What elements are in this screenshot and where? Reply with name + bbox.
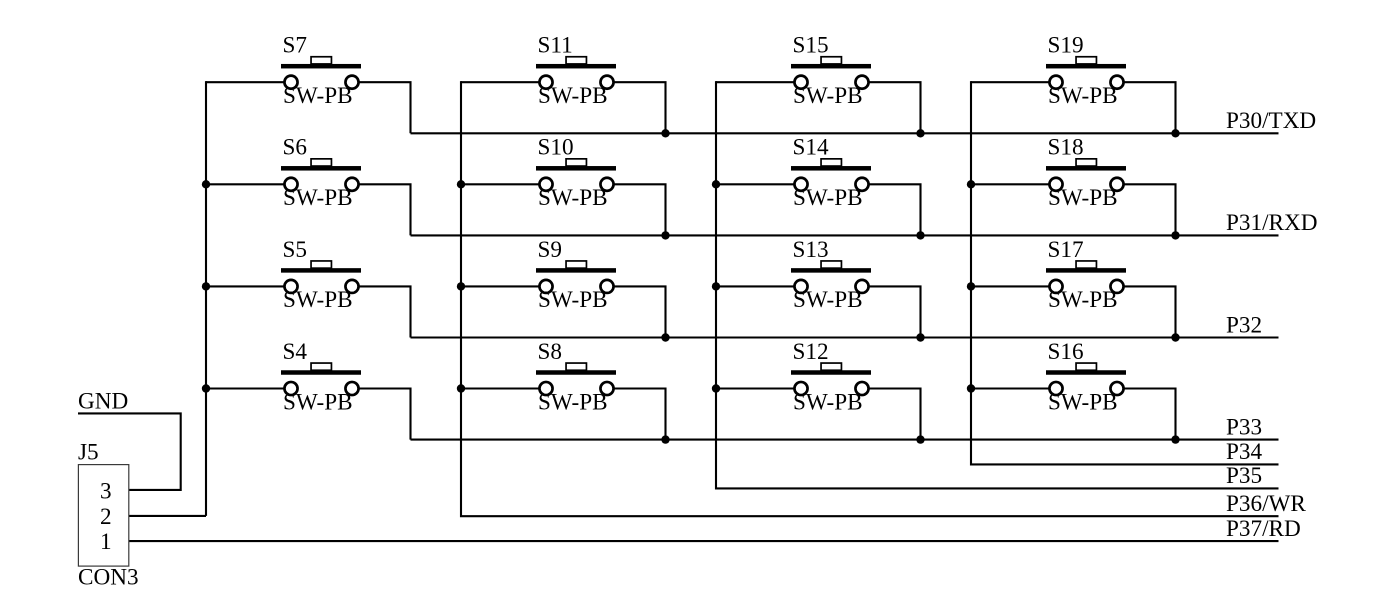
wire: row 3 right lead and drop at column 4 bbox=[1124, 286, 1175, 337]
svg-text:SW-PB: SW-PB bbox=[793, 287, 863, 313]
junction bbox=[661, 435, 669, 443]
junction bbox=[661, 231, 669, 239]
svg-text:3: 3 bbox=[100, 478, 112, 504]
pushbutton switch S8 bbox=[536, 363, 616, 395]
wire: row 3 left lead at column 2 bbox=[461, 285, 539, 287]
svg-text:P32: P32 bbox=[1226, 312, 1262, 338]
svg-text:SW-PB: SW-PB bbox=[793, 389, 863, 415]
pushbutton switch S7 bbox=[281, 57, 361, 89]
wire: row 1 right lead and drop at column 1 bbox=[359, 82, 410, 133]
wire: row 2 left lead at column 3 bbox=[716, 183, 794, 185]
pushbutton switch S18 bbox=[1046, 159, 1126, 191]
wire: P33 row output line bbox=[411, 439, 1279, 441]
svg-text:J5: J5 bbox=[78, 440, 99, 466]
junction bbox=[967, 282, 975, 290]
wire: J5 pin 1 to P37/RD bbox=[129, 540, 1279, 542]
svg-text:SW-PB: SW-PB bbox=[1048, 83, 1118, 109]
wire: row 4 right lead and drop at column 3 bbox=[869, 389, 920, 440]
svg-text:SW-PB: SW-PB bbox=[283, 389, 353, 415]
svg-text:S19: S19 bbox=[1048, 33, 1084, 59]
wire: row 3 right lead and drop at column 2 bbox=[614, 286, 665, 337]
junction bbox=[202, 282, 210, 290]
svg-text:P34: P34 bbox=[1226, 439, 1262, 465]
svg-text:S6: S6 bbox=[283, 135, 308, 161]
wire: row 1 left lead at column 1 bbox=[206, 81, 284, 83]
junction bbox=[1171, 129, 1179, 137]
junction bbox=[712, 384, 720, 392]
wire: row 4 left lead at column 3 bbox=[716, 387, 794, 389]
wire: P30/TXD row output line bbox=[411, 132, 1279, 134]
junction bbox=[661, 333, 669, 341]
junction bbox=[916, 231, 924, 239]
junction bbox=[457, 180, 465, 188]
wire: row 4 left lead at column 1 bbox=[206, 387, 284, 389]
wire: row 2 left lead at column 1 bbox=[206, 183, 284, 185]
wire: row 3 right lead and drop at column 3 bbox=[869, 286, 920, 337]
junction bbox=[916, 129, 924, 137]
wire: row 2 right lead and drop at column 1 bbox=[359, 184, 410, 235]
wire: row 4 right lead and drop at column 2 bbox=[614, 389, 665, 440]
wire: row 4 left lead at column 2 bbox=[461, 387, 539, 389]
wire: row 2 left lead at column 2 bbox=[461, 183, 539, 185]
connector J5 body bbox=[78, 465, 128, 566]
svg-text:SW-PB: SW-PB bbox=[1048, 185, 1118, 211]
pushbutton switch S19 bbox=[1046, 57, 1126, 89]
svg-text:SW-PB: SW-PB bbox=[793, 185, 863, 211]
junction bbox=[967, 180, 975, 188]
wire: row 2 left lead at column 4 bbox=[971, 183, 1049, 185]
svg-text:S7: S7 bbox=[283, 33, 308, 59]
svg-text:P31/RXD: P31/RXD bbox=[1226, 210, 1317, 236]
wire: row 1 right lead and drop at column 4 bbox=[1124, 82, 1175, 133]
junction bbox=[1171, 333, 1179, 341]
pushbutton switch S16 bbox=[1046, 363, 1126, 395]
wire: column 1 bus from row 1 down to J5 pin 2 bbox=[205, 81, 207, 516]
svg-text:SW-PB: SW-PB bbox=[538, 287, 608, 313]
svg-text:S16: S16 bbox=[1048, 339, 1084, 365]
svg-text:S15: S15 bbox=[793, 33, 829, 59]
svg-text:1: 1 bbox=[100, 529, 112, 555]
pushbutton switch S6 bbox=[281, 159, 361, 191]
svg-text:P33: P33 bbox=[1226, 414, 1262, 440]
svg-text:P36/WR: P36/WR bbox=[1226, 491, 1306, 517]
wire: GND stub down to J5 pin 3 bbox=[78, 413, 181, 490]
svg-text:SW-PB: SW-PB bbox=[538, 83, 608, 109]
svg-text:S11: S11 bbox=[538, 33, 573, 59]
wire: P32 row output line bbox=[411, 336, 1279, 338]
wire: row 2 right lead and drop at column 3 bbox=[869, 184, 920, 235]
wire: column 3 bus down and right to P35 bbox=[716, 81, 1279, 488]
svg-text:S5: S5 bbox=[283, 237, 308, 263]
svg-text:S17: S17 bbox=[1048, 237, 1084, 263]
svg-text:S13: S13 bbox=[793, 237, 829, 263]
svg-text:S8: S8 bbox=[538, 339, 563, 365]
wire: row 4 right lead and drop at column 4 bbox=[1124, 389, 1175, 440]
svg-text:SW-PB: SW-PB bbox=[283, 83, 353, 109]
junction bbox=[967, 384, 975, 392]
wire: row 2 right lead and drop at column 2 bbox=[614, 184, 665, 235]
junction bbox=[457, 384, 465, 392]
svg-text:SW-PB: SW-PB bbox=[538, 389, 608, 415]
pushbutton switch S12 bbox=[791, 363, 871, 395]
wire: row 3 left lead at column 4 bbox=[971, 285, 1049, 287]
junction bbox=[1171, 231, 1179, 239]
junction bbox=[712, 282, 720, 290]
wire: row 3 left lead at column 3 bbox=[716, 285, 794, 287]
svg-text:S10: S10 bbox=[538, 135, 574, 161]
svg-text:P35: P35 bbox=[1226, 463, 1262, 489]
wire: row 1 left lead at column 2 bbox=[461, 81, 539, 83]
svg-text:2: 2 bbox=[100, 504, 112, 530]
wire: row 1 left lead at column 3 bbox=[716, 81, 794, 83]
junction bbox=[457, 282, 465, 290]
wire: row 3 left lead at column 1 bbox=[206, 285, 284, 287]
pushbutton switch S11 bbox=[536, 57, 616, 89]
svg-text:P37/RD: P37/RD bbox=[1226, 516, 1301, 542]
svg-text:SW-PB: SW-PB bbox=[793, 83, 863, 109]
pushbutton switch S17 bbox=[1046, 261, 1126, 293]
junction bbox=[202, 384, 210, 392]
svg-text:CON3: CON3 bbox=[78, 565, 139, 591]
wire: row 3 right lead and drop at column 1 bbox=[359, 286, 410, 337]
svg-text:S4: S4 bbox=[283, 339, 308, 365]
svg-text:GND: GND bbox=[78, 388, 128, 414]
wire: row 1 left lead at column 4 bbox=[971, 81, 1049, 83]
junction bbox=[1171, 435, 1179, 443]
junction bbox=[661, 129, 669, 137]
svg-text:SW-PB: SW-PB bbox=[1048, 389, 1118, 415]
pushbutton switch S9 bbox=[536, 261, 616, 293]
svg-text:SW-PB: SW-PB bbox=[283, 185, 353, 211]
svg-text:SW-PB: SW-PB bbox=[1048, 287, 1118, 313]
wire: row 4 left lead at column 4 bbox=[971, 387, 1049, 389]
wire: column 2 bus down and right to P36/WR bbox=[461, 81, 1279, 516]
wire: P31/RXD row output line bbox=[411, 234, 1279, 236]
svg-text:S9: S9 bbox=[538, 237, 563, 263]
junction bbox=[202, 180, 210, 188]
pushbutton switch S5 bbox=[281, 261, 361, 293]
pushbutton switch S10 bbox=[536, 159, 616, 191]
svg-text:S12: S12 bbox=[793, 339, 829, 365]
pushbutton switch S13 bbox=[791, 261, 871, 293]
wire: row 1 right lead and drop at column 3 bbox=[869, 82, 920, 133]
svg-text:SW-PB: SW-PB bbox=[538, 185, 608, 211]
svg-text:P30/TXD: P30/TXD bbox=[1226, 108, 1316, 134]
junction bbox=[916, 333, 924, 341]
wire: column 4 bus down and right to P34 bbox=[971, 81, 1279, 464]
pushbutton switch S15 bbox=[791, 57, 871, 89]
wire: row 4 right lead and drop at column 1 bbox=[359, 389, 410, 440]
pushbutton switch S4 bbox=[281, 363, 361, 395]
junction bbox=[916, 435, 924, 443]
pushbutton switch S14 bbox=[791, 159, 871, 191]
svg-text:S14: S14 bbox=[793, 135, 829, 161]
svg-text:SW-PB: SW-PB bbox=[283, 287, 353, 313]
junction bbox=[712, 180, 720, 188]
svg-text:S18: S18 bbox=[1048, 135, 1084, 161]
wire: row 1 right lead and drop at column 2 bbox=[614, 82, 665, 133]
wire: row 2 right lead and drop at column 4 bbox=[1124, 184, 1175, 235]
wire: J5 pin 2 to column 1 bus bbox=[129, 515, 206, 517]
